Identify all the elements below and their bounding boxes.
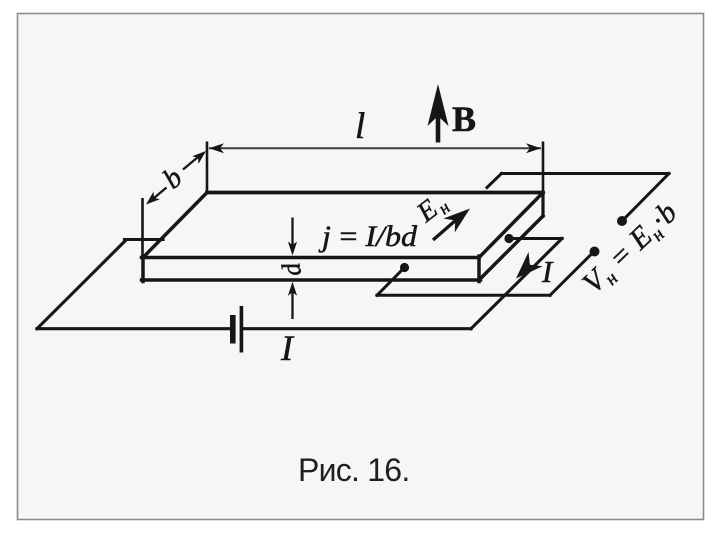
b arrowhead lower (146, 192, 160, 205)
battery short plate (230, 315, 236, 344)
svg-text:j = I/bd: j = I/bd (318, 221, 418, 253)
B arrowhead (428, 84, 449, 126)
svg-text:l: l (355, 106, 365, 147)
arrowhead l left (209, 143, 224, 153)
wire left stub into slab (125, 238, 164, 241)
contact dot right end face (504, 234, 513, 243)
hall wire upper horizontal (502, 172, 670, 175)
d arrowhead down (288, 242, 297, 256)
terminal dot upper (617, 216, 627, 226)
wire left diagonal (37, 240, 126, 329)
contact dot front face (400, 263, 409, 272)
d arrow lower (up) shaft (291, 289, 293, 319)
svg-text:Рис. 16.: Рис. 16. (298, 452, 409, 488)
wire bottom left segment (37, 327, 230, 330)
I arrowhead on right diagonal (516, 252, 543, 279)
slab top-right edge (479, 193, 543, 258)
dimension line l (209, 147, 541, 149)
label V_H = E_H * b (576, 195, 687, 303)
battery long plate (240, 306, 244, 353)
slab front top edge (142, 256, 480, 260)
B arrow shaft (436, 112, 441, 143)
d arrowhead up (288, 282, 297, 296)
terminal dot lower (590, 247, 600, 257)
slab back-right vertical edge (541, 193, 544, 217)
slab back top edge (207, 191, 543, 195)
label E_H (410, 187, 453, 231)
hall wire lower from front contact (377, 268, 405, 296)
slab front-right vertical edge (477, 256, 481, 282)
dimension tick b front corner (x=142.5) (141, 198, 144, 257)
E_H arrow shaft (433, 220, 456, 240)
wire bottom right segment (244, 327, 472, 330)
svg-text:I: I (280, 328, 295, 368)
b arrow lower shaft (151, 188, 167, 201)
arrowhead l right (526, 143, 541, 153)
slab front bottom edge (142, 278, 481, 282)
wire right horizontal to contact (509, 237, 562, 240)
hall wire lower horizontal (377, 294, 550, 297)
svg-text:I: I (541, 254, 554, 289)
E_H arrowhead (443, 209, 470, 233)
dimension extension tick right (x=543) (542, 142, 545, 194)
slab right-end bottom edge (479, 216, 543, 280)
dimension extension tick left (x=207) (206, 142, 209, 194)
wire right diagonal (471, 239, 562, 329)
hall wire upper terminal diagonal (624, 174, 670, 220)
b arrow upper shaft (183, 155, 201, 170)
svg-text:B: B (452, 99, 476, 139)
slab top-left edge (143, 193, 207, 258)
d arrow upper (down) shaft (291, 218, 293, 249)
hall wire upper hidden stub (487, 174, 502, 188)
b arrowhead upper (192, 151, 206, 164)
hall wire lower terminal diagonal (550, 251, 595, 295)
slab front-left vertical edge (141, 256, 145, 282)
